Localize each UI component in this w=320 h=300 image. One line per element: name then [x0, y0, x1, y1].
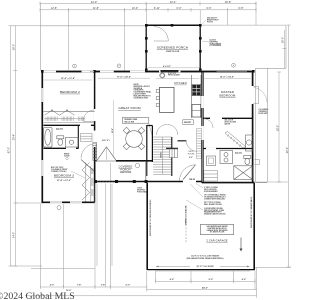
svg-text:2 HOUR RATED CEILING: 2 HOUR RATED CEILING — [204, 207, 224, 210]
svg-text:WNDW: WNDW — [64, 154, 70, 156]
porch corner circle — [135, 163, 139, 167]
left dimension line outer — [9, 26, 13, 266]
svg-text:BUILT UP 12X12: BUILT UP 12X12 — [51, 167, 63, 169]
svg-text:44'-0": 44'-0" — [202, 287, 208, 290]
rear deck post circle left — [73, 64, 77, 68]
svg-text:16R DN: 16R DN — [161, 151, 163, 158]
svg-text:6'-8": 6'-8" — [239, 7, 244, 10]
pantry double door arcs — [157, 125, 178, 136]
bath right wall — [77, 125, 79, 148]
window glass note — [64, 154, 70, 158]
svg-text:1/2" GYPSUM WALL BOARD: 1/2" GYPSUM WALL BOARD — [204, 194, 226, 197]
fridge — [192, 105, 201, 118]
svg-text:6'-0 EGRESS: 6'-0 EGRESS — [259, 109, 269, 111]
screened porch right screen wall — [199, 25, 201, 71]
right dimension lines — [253, 25, 291, 268]
left dimension rotated texts — [8, 44, 16, 238]
left horizontal extension lines — [11, 26, 96, 268]
stair treads — [153, 137, 171, 175]
svg-text:4'-0 1/2": 4'-0 1/2" — [163, 65, 171, 68]
bath / bed3 divider wall — [44, 147, 79, 149]
bath vanity — [66, 138, 79, 148]
svg-text:BEDROOM: BEDROOM — [220, 93, 236, 97]
patio slider label — [168, 73, 180, 77]
entry side wall ladder panel — [93, 143, 97, 161]
porch door swing arc — [154, 27, 169, 42]
porch note 1 — [207, 17, 219, 24]
mud room boxed label — [188, 151, 195, 156]
bedroom2 / bedroom3 shared interior wall — [94, 71, 96, 202]
covered porch side walls — [95, 161, 145, 182]
house left exterior wall — [41, 71, 43, 202]
master rear big window band — [217, 70, 248, 72]
kitchen/hall divider wall — [202, 71, 203, 183]
note right of master — [259, 109, 269, 115]
svg-text:COMMON WITH DWELLING: COMMON WITH DWELLING — [204, 198, 226, 200]
svg-text:24' OR 16' O.C. FRAMING: 24' OR 16' O.C. FRAMING — [184, 206, 187, 226]
kitchen interior dim — [156, 78, 199, 80]
master right exterior wall — [252, 71, 254, 182]
dimension witness verticals from line B — [69, 2, 256, 72]
svg-text:JOINT FLOOR: JOINT FLOOR — [166, 51, 180, 53]
garage right wall — [253, 183, 255, 270]
rear wall black segments — [56, 71, 253, 73]
house front wall at mud/porch level — [95, 181, 202, 183]
top dimension B texts — [51, 7, 244, 10]
hall bath divider wall — [44, 124, 95, 126]
svg-text:3'-8": 3'-8" — [101, 285, 106, 287]
diamond symbol — [66, 157, 69, 160]
svg-text:4'-6": 4'-6" — [170, 278, 175, 281]
svg-text:16' X 7' O.H. DOOR: 16' X 7' O.H. DOOR — [197, 266, 215, 268]
house rear wall base line — [42, 71, 254, 73]
svg-text:16'-8": 16'-8" — [225, 0, 232, 4]
svg-text:BEDROOM 3: BEDROOM 3 — [54, 174, 74, 178]
svg-text:2 8X10: 2 8X10 — [137, 188, 142, 190]
front column circle — [57, 206, 61, 210]
svg-text:DBL DOOR: DBL DOOR — [225, 120, 234, 122]
hall door arc from master — [204, 119, 213, 128]
svg-text:6'-6": 6'-6" — [207, 7, 212, 10]
OH door dim arrows — [156, 265, 250, 267]
master bath vanity — [220, 151, 233, 164]
svg-text:7'-8": 7'-8" — [77, 285, 82, 287]
covered porch posts — [94, 180, 148, 183]
bottom dim row B — [147, 288, 256, 292]
svg-text:20'-8": 20'-8" — [112, 128, 114, 133]
svg-text:24'-0": 24'-0" — [91, 0, 98, 4]
svg-text:PORCH: PORCH — [120, 168, 130, 172]
garage entry door arc — [180, 165, 196, 181]
bottom dim row C — [25, 294, 256, 298]
svg-text:AT OPENINGS: AT OPENINGS — [210, 44, 222, 47]
svg-text:SCREENED PORCH: SCREENED PORCH — [157, 45, 188, 49]
master shower with X — [234, 166, 253, 180]
mud bench cubbies — [169, 149, 177, 158]
svg-text:40'-0": 40'-0" — [286, 147, 289, 153]
WIC diagonal hanger — [225, 132, 246, 149]
svg-text:18'-0": 18'-0" — [276, 125, 279, 131]
right deck post circle — [232, 63, 236, 67]
svg-text:5/8" TYPE X GYPSUM: 5/8" TYPE X GYPSUM — [204, 202, 221, 204]
left wall window gaps — [41, 88, 43, 176]
porch interior dim — [148, 67, 200, 69]
svg-text:8'-0": 8'-0" — [126, 285, 131, 287]
svg-text:2X4 STUDS AT 16" O.C. GARAGE W: 2X4 STUDS AT 16" O.C. GARAGE WALLS — [250, 197, 253, 228]
svg-text:2 CAR GARAGE: 2 CAR GARAGE — [206, 238, 227, 242]
top dimension line B — [40, 8, 256, 12]
svg-text:13'-4": 13'-4" — [170, 0, 177, 4]
bath small window right — [255, 160, 260, 165]
svg-text:6'-0": 6'-0" — [177, 7, 182, 10]
screened porch top wall — [146, 24, 200, 26]
garage top wall — [202, 182, 255, 184]
porch wall posts — [145, 24, 202, 71]
svg-text:8'-0": 8'-0" — [209, 279, 214, 281]
master interior dim — [204, 77, 251, 79]
garage down arrow — [240, 238, 242, 251]
svg-text:12'-8": 12'-8" — [51, 7, 57, 10]
bottom-left dim row — [40, 285, 147, 289]
dining table — [126, 131, 143, 148]
bedroom3 door arc — [81, 144, 96, 159]
front walkway lines — [97, 163, 112, 287]
bedroom3 closet chevrons — [82, 163, 90, 201]
mud room upper door arc — [186, 141, 197, 152]
garage left wall — [146, 183, 148, 270]
hall appliance box — [207, 156, 216, 166]
svg-text:7X8 LVL RIM: 7X8 LVL RIM — [124, 122, 135, 124]
butler pantry shelves — [197, 129, 202, 159]
svg-text:©2024 Global MLS: ©2024 Global MLS — [0, 291, 75, 300]
left dimension line inner — [13, 26, 17, 266]
svg-text:JOINT FLOOR: JOINT FLOOR — [120, 172, 132, 174]
svg-text:ROOM: ROOM — [188, 153, 195, 155]
bedroom3 door leaf — [81, 160, 94, 172]
svg-text:10'-0": 10'-0" — [132, 7, 138, 10]
svg-text:62'-0": 62'-0" — [8, 147, 11, 153]
right dimension rotated texts — [276, 37, 289, 153]
bottom witness lines — [40, 184, 256, 297]
bedroom 3 front wall — [42, 201, 95, 203]
svg-text:KITCHEN: KITCHEN — [174, 81, 186, 85]
top dimension A texts — [91, 0, 232, 4]
garage boxed note — [201, 224, 234, 234]
svg-text:POSTS: POSTS — [207, 21, 214, 23]
svg-text:22.1 PLY 2" X 8" LVL CONT. HEA: 22.1 PLY 2" X 8" LVL CONT. HEADER — [191, 255, 220, 258]
garage notes stack — [204, 187, 226, 216]
bedroom3 closet — [86, 163, 91, 202]
svg-text:6'-11": 6'-11" — [154, 7, 160, 10]
bedroom2 door arc (into hall) — [83, 110, 94, 121]
svg-text:DROPPED: DROPPED — [137, 189, 146, 191]
interior wall door gaps — [94, 109, 96, 147]
boxed label in great room — [122, 118, 149, 124]
pantry boxed label — [183, 120, 194, 125]
svg-text:2X6 STUDS AT 16" O.C. WITH R-2: 2X6 STUDS AT 16" O.C. WITH R-21 INSULATI… — [149, 199, 152, 236]
svg-text:5'-0": 5'-0" — [189, 157, 193, 159]
mud room walls — [166, 141, 187, 149]
svg-text:16'-0": 16'-0" — [13, 44, 16, 50]
svg-text:ENTRY: ENTRY — [102, 140, 111, 142]
bedroom2 interior dim — [44, 79, 92, 81]
top dimension line A — [40, 2, 256, 6]
front door swing tent — [97, 147, 116, 161]
great room interior dim — [98, 77, 150, 79]
svg-text:CONSTRUCTION: CONSTRUCTION — [134, 97, 149, 99]
patio slider symbol circle — [160, 72, 165, 78]
closet rod and shelf — [44, 119, 94, 123]
svg-text:2" SELF CLOSING: 2" SELF CLOSING — [204, 187, 219, 189]
svg-text:4'-6": 4'-6" — [242, 278, 247, 281]
built-up columns note — [51, 167, 67, 173]
svg-text:TRIMMED STAIR: TRIMMED STAIR — [124, 118, 138, 121]
porch note 2 — [210, 40, 222, 48]
divider door gaps — [201, 96, 204, 140]
svg-text:16'-0" x 14'-0": 16'-0" x 14'-0" — [220, 76, 234, 79]
kitchen patio slider band — [161, 70, 179, 72]
svg-text:29'-4": 29'-4" — [13, 134, 16, 140]
master bed / WIC divider — [203, 117, 252, 119]
garage header note — [187, 255, 224, 260]
garage dim row — [156, 279, 256, 283]
cooktop dark grid — [193, 85, 201, 95]
bedroom2 window symbol top — [90, 71, 94, 73]
svg-text:4'-0": 4'-0" — [50, 284, 55, 287]
svg-text:DOOR UNIT: DOOR UNIT — [259, 113, 268, 115]
entry closet wall — [151, 126, 153, 163]
svg-text:11'-4" x 13'-0": 11'-4" x 13'-0" — [57, 179, 71, 182]
stairs left wall — [146, 125, 148, 162]
svg-text:14'-0": 14'-0" — [13, 232, 16, 238]
hall linen shelves — [204, 171, 218, 182]
porch hatch ticks — [97, 180, 114, 182]
svg-text:GREAT ROOM: GREAT ROOM — [118, 106, 141, 110]
master right wall window/door bump — [252, 86, 254, 104]
hall linen closet — [81, 134, 93, 142]
svg-text:PANTRY: PANTRY — [184, 121, 192, 124]
bedroom3 front windows — [50, 201, 82, 203]
bedroom2 closet hanging clothes — [46, 117, 84, 122]
island stools — [156, 90, 159, 107]
garage front wall stubs — [147, 269, 255, 271]
master bath toilet — [244, 156, 251, 165]
WIC / master bath divider — [203, 148, 252, 150]
WIC tall cabinet right — [246, 135, 253, 151]
svg-text:12'-4" x 11'-8": 12'-4" x 11'-8" — [61, 77, 75, 80]
bedroom2 closet shelf walls — [44, 111, 95, 113]
kitchen island — [160, 87, 175, 112]
kitchen counter right — [192, 75, 202, 118]
svg-text:BEDROOM 2: BEDROOM 2 — [60, 90, 80, 94]
svg-text:BATH: BATH — [56, 128, 63, 131]
note block top-right of great room — [134, 84, 153, 99]
bedroom3 closet hang clusters — [92, 168, 94, 196]
svg-text:16'-0": 16'-0" — [282, 37, 285, 43]
garage overhead door lines — [156, 270, 251, 272]
right deck outline (top-right) — [201, 25, 286, 182]
svg-text:17'-0" x 20'-0": 17'-0" x 20'-0" — [117, 76, 131, 78]
rear wall corner posts — [41, 70, 255, 73]
entry interior dim — [112, 100, 114, 158]
attic access note — [225, 120, 237, 126]
rear deck post circle right — [117, 64, 121, 68]
screened porch left screen wall — [145, 25, 147, 71]
garage dashed framing line — [185, 205, 187, 243]
entry front wall — [95, 160, 152, 162]
svg-text:BATH: BATH — [235, 152, 242, 155]
rear deck outline (top-left) — [40, 3, 146, 71]
svg-text:11'-8": 11'-8" — [93, 7, 99, 10]
front door opening — [97, 160, 117, 162]
toilet — [57, 136, 64, 146]
bedroom2 closet zigzag hangers — [45, 110, 75, 115]
table chairs — [123, 127, 145, 150]
svg-text:GAS HEATERS AND WATER: GAS HEATERS AND WATER — [206, 225, 228, 228]
porch note right — [137, 188, 149, 194]
bathtub — [44, 128, 52, 148]
svg-text:REQUIREMENTS WITH: REQUIREMENTS WITH — [204, 212, 222, 214]
svg-text:PATIO SLIDER: PATIO SLIDER — [168, 74, 180, 77]
